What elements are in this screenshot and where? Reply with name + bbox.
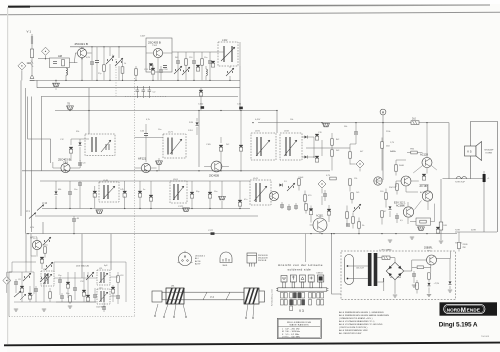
NORDMENDE logo black box bbox=[440, 302, 498, 315]
wire vertical x89 bbox=[88, 88, 90, 134]
output transistor T9 bbox=[422, 191, 432, 201]
electrolytic C165 bbox=[219, 145, 223, 151]
svg-text:1k: 1k bbox=[124, 63, 126, 65]
svg-text:5L9R: 5L9R bbox=[471, 230, 476, 232]
wire bbox=[306, 215, 321, 262]
table separator bbox=[278, 326, 320, 328]
svg-text:ALLE SPANNUNGEN GEGEN MASSE GE: ALLE SPANNUNGEN GEGEN MASSE GEMESSEN bbox=[339, 314, 389, 317]
svg-text:Dingi 5.195 A: Dingi 5.195 A bbox=[439, 321, 478, 328]
antenna V1 telescopic rod bbox=[31, 34, 33, 74]
svg-text:L148: L148 bbox=[103, 180, 109, 182]
svg-text:U 10: U 10 bbox=[42, 202, 48, 205]
wire switch rail 1 bbox=[42, 208, 250, 210]
wire vertical left 2 bbox=[25, 88, 27, 234]
ferrite rod coil winding 1 bbox=[166, 288, 184, 304]
wire bbox=[135, 138, 164, 171]
capacitor pair C122 bbox=[136, 86, 140, 98]
svg-text:10k: 10k bbox=[290, 119, 293, 121]
resistor R41 bbox=[330, 177, 336, 180]
core arrow bbox=[99, 292, 108, 302]
capacitor C139 bbox=[78, 163, 82, 165]
AF transistor T1 bbox=[313, 218, 327, 232]
ferrite rod body bbox=[162, 292, 259, 300]
resistor bbox=[44, 247, 47, 253]
svg-text:25C403 B: 25C403 B bbox=[58, 158, 71, 162]
svg-text:Schaltstellung unten: Schaltstellung unten bbox=[271, 289, 274, 306]
svg-text:ALLE VOLTAGES MEASURED TO GROU: ALLE VOLTAGES MEASURED TO GROUND bbox=[339, 323, 383, 326]
svg-text:AC187K: AC187K bbox=[420, 191, 428, 194]
coil L103 bbox=[206, 69, 207, 76]
electrolytic C66 bbox=[436, 227, 440, 233]
IF transformer L171 dashed box bbox=[163, 134, 186, 158]
scan artifact: left page edge shadow bbox=[7, 7, 9, 344]
wire bbox=[311, 205, 329, 223]
wire bbox=[377, 258, 395, 282]
wire bbox=[282, 202, 296, 211]
feedthrough capacitor C175 bbox=[219, 196, 226, 199]
electrolytic C164 bbox=[199, 90, 203, 96]
V3 plug 1 bbox=[281, 276, 287, 283]
choke DR bbox=[439, 222, 443, 230]
logo stadium outline inner bbox=[445, 306, 484, 313]
svg-text:Dr2: Dr2 bbox=[412, 117, 417, 120]
svg-text:2n: 2n bbox=[40, 259, 42, 261]
capacitor bbox=[412, 274, 416, 276]
capacitor C162 on rail bbox=[201, 106, 205, 109]
windings bbox=[257, 137, 261, 156]
wire bbox=[449, 259, 451, 290]
svg-text:L102: L102 bbox=[222, 39, 228, 42]
capacitor C146 bbox=[280, 205, 284, 207]
test point diamond bbox=[18, 62, 26, 70]
ground bbox=[448, 290, 452, 292]
electrolytic C192 bbox=[315, 156, 319, 162]
wire bbox=[302, 137, 314, 157]
transistor T104 bbox=[141, 163, 150, 172]
electrolytic bbox=[40, 257, 44, 263]
wire vertical left 4 bbox=[40, 97, 42, 171]
wire vertical left 1 bbox=[20, 80, 22, 216]
electrolytic C174 bbox=[208, 192, 212, 198]
electrolytic bbox=[111, 287, 115, 293]
capacitor C46 bbox=[346, 224, 350, 226]
resistor R154 bbox=[395, 165, 398, 171]
svg-text:0,2V: 0,2V bbox=[326, 175, 331, 177]
capacitor C142 bbox=[78, 183, 82, 185]
svg-text:7B: 7B bbox=[67, 103, 70, 106]
svg-text:C177: C177 bbox=[208, 230, 214, 232]
rod diagonal break bbox=[203, 292, 230, 300]
capacitor C113 bbox=[208, 61, 212, 63]
wire vertical x199 bbox=[198, 111, 200, 168]
diode D141 bbox=[55, 191, 58, 194]
resistor R47 bbox=[358, 222, 361, 228]
diode D142 bbox=[279, 184, 282, 187]
diode D151 bbox=[196, 122, 199, 125]
capacitor C111 bbox=[176, 61, 180, 63]
svg-text:WAVE RANGES: WAVE RANGES bbox=[290, 324, 310, 327]
driver transistor T7 bbox=[374, 177, 382, 185]
resistor 220ohm bbox=[458, 242, 461, 248]
wire vertical x484 bbox=[483, 182, 485, 232]
test point diamond bbox=[318, 180, 326, 188]
wire junctions bbox=[27, 46, 427, 234]
wire bbox=[355, 123, 357, 144]
driver transistor T8 bbox=[401, 176, 411, 186]
svg-text:L192: L192 bbox=[284, 131, 290, 133]
svg-text:( SPANNUNGSTOLERANZ ±10% ): ( SPANNUNGSTOLERANZ ±10% ) bbox=[339, 317, 373, 320]
resistor R194 bbox=[349, 152, 352, 158]
wire bbox=[204, 166, 229, 168]
winding bbox=[45, 273, 48, 284]
svg-text:10n: 10n bbox=[74, 189, 77, 191]
svg-text:L171: L171 bbox=[168, 132, 174, 134]
svg-text:V 3: V 3 bbox=[299, 309, 304, 313]
wire long rail y122 bbox=[258, 122, 449, 124]
wire bbox=[200, 88, 202, 111]
transistor case square view bbox=[247, 253, 257, 263]
wire am strip top rail bbox=[40, 180, 250, 182]
wire bbox=[239, 181, 241, 209]
capacitor bbox=[116, 296, 120, 298]
trimmer C172 bbox=[183, 208, 190, 211]
ferrite rod end cap right bbox=[259, 291, 265, 302]
resistor R152 bbox=[411, 151, 417, 154]
wire bbox=[196, 118, 198, 135]
capacitor C116 bbox=[159, 70, 163, 72]
resistor bbox=[49, 292, 52, 298]
electrolytic C163b bbox=[422, 174, 426, 180]
resistor bbox=[416, 283, 419, 289]
wire drops bbox=[110, 47, 119, 81]
svg-text:C172: C172 bbox=[178, 206, 184, 208]
svg-text:L161: L161 bbox=[173, 179, 179, 181]
wire bbox=[414, 271, 429, 294]
resistor R107 bbox=[185, 59, 188, 65]
svg-text:39k: 39k bbox=[76, 131, 79, 133]
svg-text:L141: L141 bbox=[253, 178, 259, 180]
feedthrough capacitor C152 bbox=[96, 210, 103, 213]
svg-text:ENDE: ENDE bbox=[467, 308, 480, 313]
wire vertical x441 bbox=[440, 179, 442, 240]
svg-text:DR: DR bbox=[444, 225, 448, 227]
output transistor T10 bbox=[403, 207, 413, 217]
V3 contact group 5 bbox=[317, 293, 324, 306]
wire bbox=[70, 139, 72, 161]
wire bbox=[350, 179, 352, 204]
oscillator transistor bbox=[269, 191, 278, 200]
svg-text:CB 2x47: CB 2x47 bbox=[356, 268, 365, 270]
ground bbox=[427, 295, 431, 297]
svg-text:AC188K: AC188K bbox=[396, 205, 405, 208]
wire long rail y110 bbox=[55, 111, 277, 134]
ground bbox=[68, 306, 72, 308]
wire bbox=[322, 188, 325, 205]
electrolytic C45 bbox=[327, 209, 331, 215]
trimmer C105 bbox=[106, 56, 114, 64]
electrolytic bbox=[82, 290, 86, 296]
svg-text:V 2: V 2 bbox=[210, 295, 214, 299]
svg-text:5n: 5n bbox=[143, 189, 145, 191]
fuse bbox=[382, 256, 390, 259]
capacitor C103 bbox=[90, 62, 94, 64]
leader lines right coil bbox=[246, 304, 254, 317]
capacitor bbox=[34, 289, 38, 291]
wire vertical bottom left 2 bbox=[30, 234, 32, 256]
electrolytic C156 bbox=[138, 191, 142, 197]
svg-text:4x: 4x bbox=[390, 277, 392, 279]
node A circle bbox=[380, 109, 386, 115]
wire bbox=[135, 66, 137, 80]
svg-text:T102: T102 bbox=[152, 45, 158, 47]
transistor case arch view bbox=[220, 252, 232, 263]
svg-text:2SC404 B: 2SC404 B bbox=[258, 258, 268, 260]
wire bbox=[71, 139, 89, 161]
wire vertical bottom left 1 bbox=[25, 234, 27, 262]
capacitor bbox=[73, 288, 77, 290]
windings bbox=[256, 183, 260, 202]
wire switch rail 2 bbox=[35, 215, 258, 217]
svg-text:DM613: DM613 bbox=[317, 273, 323, 275]
wire riser tuner b bbox=[110, 234, 112, 270]
capacitor bbox=[93, 295, 97, 297]
electrolytic bbox=[20, 286, 24, 292]
svg-text:AC 187: AC 187 bbox=[420, 185, 429, 188]
svg-text:M: M bbox=[461, 307, 466, 314]
ground bbox=[410, 237, 414, 239]
V3 contact group 1 bbox=[280, 293, 287, 306]
wire stub bbox=[55, 80, 57, 89]
V3 contact group 3 bbox=[298, 293, 305, 306]
electrolytic bbox=[28, 293, 32, 299]
core arrow bbox=[173, 186, 184, 200]
feedthrough capacitor on rail bbox=[323, 123, 330, 126]
V3 contact group 2 bbox=[290, 293, 297, 311]
resistor R110 bbox=[135, 69, 138, 75]
capacitor bbox=[14, 282, 18, 284]
wire bbox=[73, 216, 75, 234]
trimmer bbox=[23, 273, 31, 281]
ground bbox=[412, 285, 416, 287]
wire risers bbox=[26, 256, 126, 302]
resistor R151 bbox=[381, 142, 384, 148]
mains plug capsule bbox=[345, 255, 354, 285]
resistor R141 bbox=[298, 179, 301, 185]
ground bbox=[42, 309, 46, 311]
svg-text:2SC403 B: 2SC403 B bbox=[148, 41, 161, 45]
core arrow bbox=[256, 140, 270, 156]
transformer secondary winding bbox=[374, 253, 378, 286]
svg-text:BA3A: BA3A bbox=[390, 150, 396, 153]
scan artifact: bottom dark line bbox=[4, 343, 500, 346]
svg-text:AF117: AF117 bbox=[30, 237, 38, 240]
wire bbox=[413, 123, 437, 174]
wire stub bbox=[42, 222, 44, 234]
wire main bottom bus bbox=[26, 233, 457, 235]
wire vertical left 3 bbox=[31, 97, 33, 233]
electrolytic C149 bbox=[93, 191, 97, 197]
ratio detector transformer dashed box 2 bbox=[280, 133, 302, 160]
trimmer bbox=[86, 272, 94, 280]
wire web bbox=[9, 272, 118, 317]
resistor R104 bbox=[121, 67, 124, 73]
wire bbox=[69, 181, 71, 208]
svg-text:2W: 2W bbox=[463, 247, 466, 249]
electrolytic C121 bbox=[69, 147, 73, 153]
svg-text:C162: C162 bbox=[198, 104, 204, 106]
resistor R43 bbox=[351, 193, 354, 199]
svg-text:V 1: V 1 bbox=[27, 30, 32, 34]
wire inside box bbox=[146, 53, 172, 80]
test point diamond bbox=[42, 47, 50, 55]
wire bbox=[53, 160, 80, 168]
plug pins bbox=[347, 265, 349, 267]
wire bbox=[322, 133, 332, 171]
electrolytic C120 bbox=[211, 61, 215, 67]
windings bbox=[92, 137, 96, 152]
svg-text:LB 101/4 1: LB 101/4 1 bbox=[195, 256, 206, 258]
wire bbox=[139, 181, 141, 209]
wire bbox=[229, 66, 231, 80]
wire bbox=[79, 181, 81, 209]
ground bbox=[393, 295, 397, 297]
wire mid detector rail bbox=[306, 147, 350, 149]
bridge rectifier diamond bbox=[386, 262, 404, 280]
svg-text:47n: 47n bbox=[244, 199, 247, 201]
tuning coil dashed box 3 bbox=[97, 289, 110, 304]
dashed boundary segment bbox=[125, 96, 167, 98]
wire speaker return bbox=[455, 231, 497, 233]
electrolytic C176 bbox=[238, 200, 242, 206]
bridge diodes bbox=[389, 266, 392, 269]
svg-text:1N60: 1N60 bbox=[397, 277, 402, 279]
wire vertical from node A bbox=[382, 115, 384, 180]
test point diamond bbox=[356, 160, 364, 168]
resistor R108 bbox=[201, 59, 204, 65]
svg-text:L191: L191 bbox=[255, 131, 261, 133]
svg-text:9H01: 9H01 bbox=[223, 265, 229, 267]
wire rail y87.7 bbox=[37, 87, 240, 89]
capacitor pair C123 bbox=[142, 86, 146, 98]
value annotations bbox=[18, 55, 428, 297]
transistor T101 bbox=[77, 48, 86, 57]
windings bbox=[174, 184, 178, 200]
switch U10 bbox=[37, 205, 44, 211]
scan artifact: top dark line bbox=[8, 5, 490, 7]
vertical caption bbox=[271, 289, 274, 306]
core arrow bbox=[103, 186, 115, 199]
winding bbox=[101, 272, 104, 283]
capacitor C163 on rail bbox=[239, 107, 243, 110]
wire drops bbox=[92, 47, 97, 81]
trimmer arrow bbox=[43, 237, 51, 245]
transistor T102 bbox=[153, 48, 162, 57]
svg-text:(5V) 55A C/A: (5V) 55A C/A bbox=[76, 265, 89, 268]
core arrow bbox=[254, 186, 267, 201]
wire bbox=[103, 47, 105, 81]
diode D192 bbox=[304, 156, 307, 159]
chassis dotted border bottom bbox=[9, 316, 135, 318]
svg-text:A3 97: A3 97 bbox=[195, 263, 201, 266]
wire output couplings bbox=[406, 181, 435, 222]
core arrow bbox=[99, 273, 108, 283]
svg-text:V 5: V 5 bbox=[467, 150, 472, 154]
trimmer C117 bbox=[174, 66, 182, 74]
resistor R192 bbox=[331, 150, 334, 156]
diode D102 bbox=[79, 142, 82, 145]
svg-text:NTU643P: NTU643P bbox=[485, 150, 494, 152]
electrolytic C150 bbox=[123, 191, 127, 197]
resistor bbox=[69, 296, 72, 302]
resistor R46 bbox=[352, 217, 355, 223]
windings bbox=[286, 137, 290, 156]
wire bbox=[218, 42, 240, 66]
wire bbox=[36, 80, 38, 87]
core arrow bbox=[284, 140, 297, 156]
oscillator coil dashed box bbox=[250, 180, 271, 205]
capacitor C140 bbox=[72, 219, 76, 221]
capacitor C112 bbox=[192, 61, 196, 63]
top rail bbox=[70, 46, 146, 48]
ferrite rod end cap bbox=[152, 291, 162, 302]
svg-text:7L9R 7L0P: 7L9R 7L0P bbox=[455, 182, 466, 184]
core arrow bbox=[43, 274, 52, 284]
IF transformer L161 dashed box bbox=[170, 181, 187, 203]
svg-text:ESV 312 1: ESV 312 1 bbox=[394, 202, 406, 205]
trimmer C145 bbox=[287, 183, 295, 191]
electrolytic C44 bbox=[309, 208, 313, 214]
wire bbox=[220, 137, 222, 171]
scan artifact: top second gray line bbox=[0, 12, 500, 15]
V3 socket bar bbox=[278, 288, 327, 291]
wire upper mid rail bbox=[41, 96, 238, 98]
wire bbox=[396, 160, 406, 176]
capacitor C147 bbox=[287, 207, 291, 209]
resistor bbox=[117, 276, 120, 282]
svg-text:2SC40 B: 2SC40 B bbox=[258, 260, 267, 262]
electrolytic C119 bbox=[196, 65, 200, 71]
IF transformer L102 bbox=[218, 42, 238, 66]
V3 plug 2 bbox=[290, 275, 296, 282]
power supply dashed border bbox=[341, 251, 456, 300]
svg-text:A2 96: A2 96 bbox=[195, 260, 201, 263]
V3 contact group 4 bbox=[309, 293, 316, 306]
wire riser tuner a bbox=[81, 234, 83, 278]
wire bbox=[299, 177, 306, 214]
wire bbox=[26, 256, 42, 269]
svg-text:A1 /: A1 / bbox=[195, 257, 199, 260]
logo stadium outline outer bbox=[444, 304, 485, 313]
capacitor C141 bbox=[68, 192, 72, 194]
trimmer R44 bbox=[353, 204, 361, 212]
electrolytic C191 bbox=[315, 134, 319, 140]
svg-text:10n: 10n bbox=[158, 129, 161, 131]
output diode bbox=[449, 281, 452, 284]
trimmer bbox=[40, 274, 48, 282]
wire bbox=[483, 171, 485, 183]
wire bbox=[350, 164, 360, 171]
wire bbox=[95, 181, 125, 208]
wire bbox=[412, 264, 431, 272]
electrolytic C173 bbox=[190, 192, 194, 198]
svg-text:704 009: 704 009 bbox=[481, 336, 490, 338]
svg-text:ALLE WIDERSTAENDE 1/8W: ALLE WIDERSTAENDE 1/8W bbox=[339, 329, 368, 332]
resistor R73 bbox=[381, 211, 384, 217]
wire bbox=[347, 206, 359, 234]
wire bbox=[145, 124, 147, 162]
svg-text:soldered side: soldered side bbox=[288, 268, 312, 272]
thermistor box bbox=[416, 218, 431, 225]
